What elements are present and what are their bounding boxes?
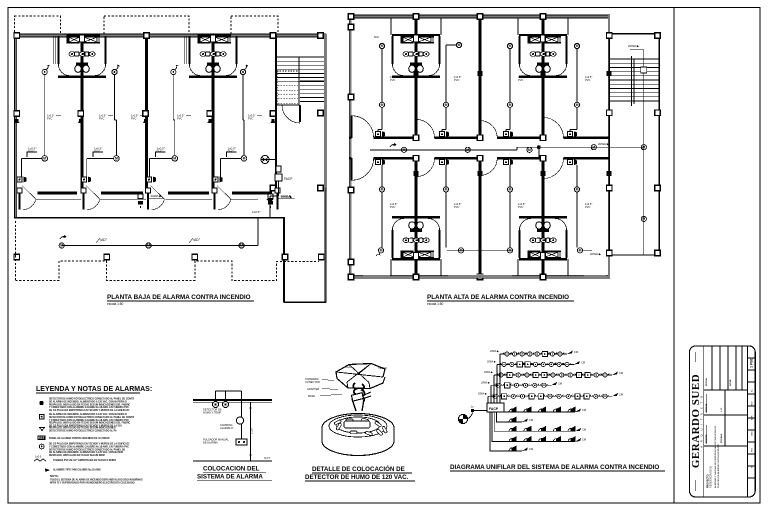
svg-text:DISEÑO:: DISEÑO:	[705, 434, 708, 443]
svg-text:PVC: PVC	[99, 116, 104, 120]
svg-text:CM: CM	[581, 360, 585, 364]
svg-text:PVC: PVC	[47, 116, 52, 120]
svg-text:Y CONECTADO CON ALAMBRE CALIBR: Y CONECTADO CON ALAMBRE CALIBRE No.18 AW…	[49, 445, 129, 448]
detector drops	[215, 391, 217, 400]
svg-text:SISTEMA DE ALARMA: SISTEMA DE ALARMA	[197, 474, 263, 481]
svg-text:ADAPTER: ADAPTER	[307, 387, 319, 391]
svg-text:A R Q U I T E C T O: A R Q U I T E C T O	[700, 394, 704, 447]
legend item pull station	[40, 415, 44, 419]
svg-text:/AD°: /AD°	[193, 238, 201, 242]
horn branch 3	[504, 430, 575, 432]
columns row mid	[14, 111, 19, 117]
svg-text:PVC: PVC	[585, 78, 590, 82]
svg-text:PVC: PVC	[454, 78, 459, 82]
detector branch 5	[488, 395, 612, 397]
lower-right porch block	[283, 218, 285, 302]
svg-text:PVC: PVC	[248, 116, 253, 120]
bottom exterior wall alta	[349, 275, 610, 278]
svg-text:CAJA: CAJA	[345, 365, 352, 369]
svg-text:ALAMBRE TIPO THW CALIBRE No.18: ALAMBRE TIPO THW CALIBRE No.18 AWG	[53, 469, 101, 472]
stair alta treads	[609, 58, 659, 60]
horn branch 2	[504, 421, 522, 423]
columns alta	[607, 33, 613, 39]
svg-text:RESIDENCIA GS-01: RESIDENCIA GS-01	[710, 465, 713, 488]
svg-text:escala 1:50: escala 1:50	[427, 302, 444, 306]
balcony dashed outline 3	[231, 16, 278, 35]
title block column divider	[673, 8, 675, 504]
svg-text:M: M	[243, 157, 246, 161]
columns row walkway	[270, 185, 276, 191]
svg-text:Y CONECTADO CON ALAMBRE CALIBR: Y CONECTADO CON ALAMBRE CALIBRE No.18 AW…	[49, 419, 129, 422]
svg-text:PLANTAS DE ALARMA CONTRA INCEN: PLANTAS DE ALARMA CONTRA INCENDIO	[717, 444, 720, 488]
svg-text:M: M	[43, 157, 46, 161]
svg-text:PVC: PVC	[131, 116, 136, 120]
right wall main block alta	[608, 15, 610, 278]
party wall units2-3	[145, 35, 148, 192]
svg-text:NFPA 72 Y SUPERVISADO POR UN I: NFPA 72 Y SUPERVISADO POR UN INGENIERO E…	[50, 481, 135, 484]
architect name cell	[703, 346, 705, 497]
wall devices alta	[413, 71, 418, 76]
bathroom core units3-4	[189, 35, 237, 77]
svg-text:ALARMA 6": ALARMA 6"	[220, 426, 234, 430]
svg-text:M: M	[509, 103, 512, 107]
svg-text:20WA ▶: 20WA ▶	[281, 195, 293, 199]
unit wiring alta bottom	[379, 165, 384, 248]
svg-text:M: M	[381, 188, 384, 192]
party walls alta top half	[415, 15, 418, 138]
svg-text:Y CONECTADO CON ALAMBRE CALIBR: Y CONECTADO CON ALAMBRE CALIBRE No.18 AW…	[49, 406, 129, 409]
svg-text:DE ALARMA DE INCENDIO, ALIMENT: DE ALARMA DE INCENDIO, ALIMENTADO A 120 …	[49, 400, 127, 403]
svg-text:HUMO Y TEMP.: HUMO Y TEMP.	[203, 410, 222, 414]
dimension line	[250, 402, 252, 461]
svg-text:CM: CM	[529, 418, 533, 422]
party wall units3-4	[212, 35, 215, 192]
svg-text:M: M	[381, 44, 384, 48]
svg-text:REV: REV	[752, 401, 754, 406]
svg-text:M: M	[381, 103, 384, 107]
svg-text:M: M	[642, 217, 645, 221]
svg-text:DIBUJO:: DIBUJO:	[706, 403, 708, 412]
svg-text:RESPALDO, INSTALADO EN TECHO S: RESPALDO, INSTALADO EN TECHO SEGUN INDIC…	[49, 403, 131, 406]
svg-text:20WA ▶: 20WA ▶	[481, 381, 490, 384]
svg-text:M: M	[380, 249, 383, 253]
svg-text:PVC: PVC	[157, 150, 164, 154]
svg-text:HOJA:: HOJA:	[729, 379, 732, 386]
party walls alta bottom half	[415, 158, 418, 278]
svg-text:20WA ▶: 20WA ▶	[151, 194, 163, 198]
svg-text:M: M	[579, 249, 582, 253]
detector branch 3	[494, 374, 612, 376]
svg-text:DETECTOR DE HUMO FOTOELECTRICO: DETECTOR DE HUMO FOTOELECTRICO CONECTADO…	[49, 416, 134, 419]
bell	[236, 417, 243, 424]
wall horns mid	[14, 119, 20, 123]
svg-text:TECHO: TECHO	[378, 366, 387, 370]
svg-text:PVC: PVC	[390, 78, 395, 82]
svg-text:M: M	[147, 244, 150, 248]
svg-text:M: M	[576, 44, 579, 48]
branch risers	[488, 354, 500, 403]
unit alarm wiring baja	[22, 65, 50, 177]
svg-text:DE ALARMA: DE ALARMA	[203, 440, 218, 444]
svg-text:DETECTOR DE HUMO DE 120 VAC.: DETECTOR DE HUMO DE 120 VAC.	[305, 474, 409, 481]
svg-text:escala 1:50: escala 1:50	[107, 302, 124, 306]
svg-text:M: M	[445, 103, 448, 107]
svg-text:ALARMAS Y SALIDAS DE EMERGENCI: ALARMAS Y SALIDAS DE EMERGENCIA CONTRA I…	[714, 426, 717, 488]
corridor wire alta	[370, 149, 517, 151]
walkway edge lines	[36, 198, 81, 200]
svg-text:M: M	[460, 249, 463, 253]
bathroom cores alta top	[391, 18, 441, 35]
detector slots	[334, 420, 341, 426]
octagonal junction box isometric	[336, 364, 385, 383]
unit wiring alta top	[378, 49, 385, 132]
svg-text:COLOCACION DEL: COLOCACION DEL	[203, 466, 260, 473]
porch dashed crenellation	[14, 221, 16, 280]
supply circle	[458, 414, 467, 423]
svg-text:CM: CM	[619, 371, 623, 375]
svg-text:1.20: 1.20	[250, 428, 254, 434]
left exterior wall	[14, 34, 16, 218]
svg-text:M: M	[458, 43, 461, 47]
left exterior wall alta	[349, 15, 351, 278]
svg-text:INI: INI	[752, 465, 754, 468]
svg-text:PVC: PVC	[585, 205, 590, 209]
svg-text:M: M	[509, 188, 512, 192]
horn branch 1	[504, 411, 575, 413]
svg-text:OBS: OBS	[752, 431, 754, 436]
stair planta baja	[276, 57, 324, 123]
horn branch 5	[504, 450, 522, 452]
right exterior wall	[324, 34, 326, 302]
top exterior wall	[14, 34, 326, 37]
svg-text:PVC: PVC	[518, 205, 523, 209]
svg-text:N.P.T.: N.P.T.	[264, 456, 271, 460]
svg-text:RESPALDO, INSTALADO EN TECHO S: RESPALDO, INSTALADO EN TECHO SEGUN INDIC	[49, 454, 105, 457]
legend item horn strobe	[39, 444, 44, 449]
svg-text:M: M	[240, 244, 243, 248]
top unit circles	[379, 43, 384, 55]
svg-text:PVC: PVC	[390, 205, 395, 209]
svg-text:FACP: FACP	[489, 407, 499, 411]
svg-text:20WA ▶: 20WA ▶	[590, 252, 602, 256]
svg-text:PVC: PVC	[177, 116, 182, 120]
wall unit4/stairhall	[275, 35, 277, 188]
svg-text:CM: CM	[582, 408, 586, 412]
porch detector wire	[62, 245, 258, 247]
svg-text:No.: No.	[752, 388, 754, 392]
walkway columns and stubs	[17, 188, 22, 193]
svg-text:DE ALARMA DE INCENDIO, ALIMENT: DE ALARMA DE INCENDIO, ALIMENTADO A 120 …	[49, 413, 127, 416]
svg-text:TODO EL SISTEMA DE ALARMA DE I: TODO EL SISTEMA DE ALARMA DE INCENDIO SE…	[50, 479, 143, 482]
detector branch 4	[491, 384, 551, 386]
svg-text:M: M	[115, 157, 118, 161]
corridor devices	[138, 194, 143, 208]
svg-text:20WA ▶: 20WA ▶	[628, 44, 640, 48]
svg-text:ESCALA:: ESCALA:	[720, 433, 723, 443]
svg-text:20WA ▶: 20WA ▶	[490, 350, 499, 353]
svg-text:1 PBD: 1 PBD	[750, 357, 754, 368]
svg-text:CM: CM	[574, 350, 578, 354]
svg-text:FECHA:: FECHA:	[705, 377, 708, 386]
svg-text:M: M	[592, 145, 595, 149]
svg-text:PVC: PVC	[94, 150, 101, 154]
svg-text:20WA ▶: 20WA ▶	[484, 371, 493, 374]
bathroom core units1-2	[58, 35, 106, 77]
svg-text:PVC: PVC	[454, 205, 459, 209]
stair block alta	[609, 34, 659, 255]
right edge small cells	[748, 357, 756, 359]
svg-text:DETALLE DE COLOCACIÓN DE: DETALLE DE COLOCACIÓN DE	[312, 465, 405, 473]
box cross brace	[336, 364, 383, 383]
svg-text:M: M	[576, 103, 579, 107]
svg-text:DIAGRAMA UNIFILAR DEL SISTEMA: DIAGRAMA UNIFILAR DEL SISTEMA DE ALARMA …	[450, 464, 659, 471]
svg-text:M: M	[576, 188, 579, 192]
unit bottom walls with entry doors	[38, 192, 78, 195]
svg-text:RESPALDO, INSTALADO EN TECHO S: RESPALDO, INSTALADO EN TECHO SEGUN INDIC…	[49, 427, 116, 430]
svg-text:DE 1/2 PULGADA EMPOTRADA EN TE: DE 1/2 PULGADA EMPOTRADA EN TECHOS Y MUR…	[49, 409, 130, 412]
mount arrows	[352, 399, 364, 411]
ceiling slab lines	[193, 399, 272, 401]
pull station box	[236, 439, 247, 445]
svg-text:M: M	[445, 188, 448, 192]
svg-text:CM: CM	[558, 381, 562, 385]
smoke detector body isometric	[322, 414, 394, 443]
detector branch 2	[497, 363, 574, 365]
svg-text:PVC: PVC	[518, 78, 523, 82]
legend item smoke detector	[39, 401, 43, 405]
svg-text:RESPALDO, INSTALADO EN TECHO S: RESPALDO, INSTALADO EN TECHO SEGUN INDIC…	[49, 422, 131, 425]
svg-text:PLANTA ALTA DE ALARMA CONTRA I: PLANTA ALTA DE ALARMA CONTRA INCENDIO	[427, 294, 569, 301]
svg-text:FEC: FEC	[752, 447, 754, 452]
bottom unit circles	[376, 248, 384, 256]
columns row top	[14, 33, 19, 39]
svg-text:M: M	[642, 145, 645, 149]
svg-text:APR: APR	[751, 415, 754, 420]
svg-text:CM: CM	[529, 447, 533, 451]
svg-text:1⌀: 1⌀	[471, 405, 474, 409]
svg-text:FACP: FACP	[284, 177, 292, 181]
svg-text:LEYENDA Y NOTAS DE ALARMAS:: LEYENDA Y NOTAS DE ALARMAS:	[36, 386, 152, 393]
svg-text:/AD°: /AD°	[100, 238, 108, 242]
svg-text:M: M	[528, 148, 531, 152]
top exterior wall alta	[349, 15, 610, 18]
svg-text:M: M	[60, 244, 63, 248]
svg-text:BASE: BASE	[308, 394, 315, 398]
svg-text:PANEL DE ALARMA CONTRA INCENDI: PANEL DE ALARMA CONTRA INCENDIO DE 10 ZO…	[49, 437, 110, 440]
floor line	[193, 460, 272, 462]
svg-text:DETECTOR DE HUMO FOTOELECTRICO: DETECTOR DE HUMO FOTOELECTRICO CONECTADO…	[49, 429, 117, 432]
party wall units1-2	[81, 35, 84, 192]
svg-text:20WA ▶: 20WA ▶	[487, 360, 496, 363]
corridor door arcs alta	[352, 116, 374, 138]
entry devices	[17, 177, 27, 183]
legend item wiring run	[34, 459, 46, 461]
svg-text:20WA ▶: 20WA ▶	[598, 142, 610, 146]
svg-text:CM: CM	[582, 438, 586, 442]
svg-text:DETECTOR DE HUMO FOTOELECTRICO: DETECTOR DE HUMO FOTOELECTRICO CONECTADO…	[49, 398, 134, 401]
conduit down	[241, 391, 243, 439]
svg-text:DE 1/2 PULGADA EMPOTRADA EN TE: DE 1/2 PULGADA EMPOTRADA EN TECHOS Y MUR…	[49, 443, 130, 446]
svg-text:EST: EST	[38, 436, 44, 440]
svg-text:PVC: PVC	[228, 150, 235, 154]
FACP control panel baja	[261, 156, 293, 218]
svg-text:M: M	[509, 249, 512, 253]
horn risers	[490, 412, 504, 451]
columns row porch	[14, 254, 20, 260]
connector block	[351, 393, 363, 401]
balcony dashed outline 2	[104, 16, 189, 35]
svg-text:M: M	[466, 148, 469, 152]
FACP box	[487, 403, 504, 412]
svg-text:CM: CM	[582, 427, 586, 431]
building lower-edge line	[14, 217, 285, 219]
title block grid	[747, 346, 749, 497]
svg-text:M: M	[173, 157, 176, 161]
svg-text:PLANTA BAJA DE ALARMA CONTRA I: PLANTA BAJA DE ALARMA CONTRA INCENDIO	[107, 294, 251, 301]
svg-text:CONECTOR: CONECTOR	[305, 380, 320, 384]
legend item EST panel	[38, 436, 46, 441]
svg-text:TUBERIA PVC DE 1/2" EMPOTRADA: TUBERIA PVC DE 1/2" EMPOTRADA EN TECHO O…	[53, 459, 116, 462]
stair alta wire	[643, 50, 645, 255]
wires from box	[353, 383, 357, 395]
corridor walls alta	[349, 137, 352, 140]
legend item bell	[40, 428, 45, 431]
balcony dashed outline 1	[15, 16, 61, 35]
svg-text:20WA ▶: 20WA ▶	[478, 392, 487, 395]
bottom wall windows	[363, 275, 390, 279]
svg-text:1x0.5″: 1x0.5″	[252, 210, 260, 214]
svg-text:M: M	[509, 44, 512, 48]
legend item arrow	[45, 469, 50, 473]
horn branch 4	[504, 441, 575, 443]
svg-text:PVC: PVC	[28, 150, 35, 154]
entry door leaves and arcs	[22, 186, 36, 199]
svg-text:NA/: NA/	[374, 35, 379, 39]
svg-text:1x0.5: 1x0.5	[35, 455, 42, 459]
svg-text:DE ALARMA DE INCENDIO, ALIMENT: DE ALARMA DE INCENDIO, ALIMENTADO A 120 …	[49, 451, 123, 454]
svg-text:NOTA:: NOTA:	[50, 474, 59, 478]
detector heads	[213, 402, 219, 408]
svg-text:CM: CM	[619, 392, 623, 396]
bathroom cores alta bottom (mirrored)	[391, 217, 441, 276]
detector branch 1	[500, 353, 567, 355]
svg-text:DETECTOR DE HUMO FOTOELECTRICO: DETECTOR DE HUMO FOTOELECTRICO CONECTADO…	[49, 448, 126, 451]
title block outer rounded frame	[690, 346, 756, 497]
closet walls baja	[53, 36, 55, 64]
svg-text:M: M	[403, 148, 406, 152]
